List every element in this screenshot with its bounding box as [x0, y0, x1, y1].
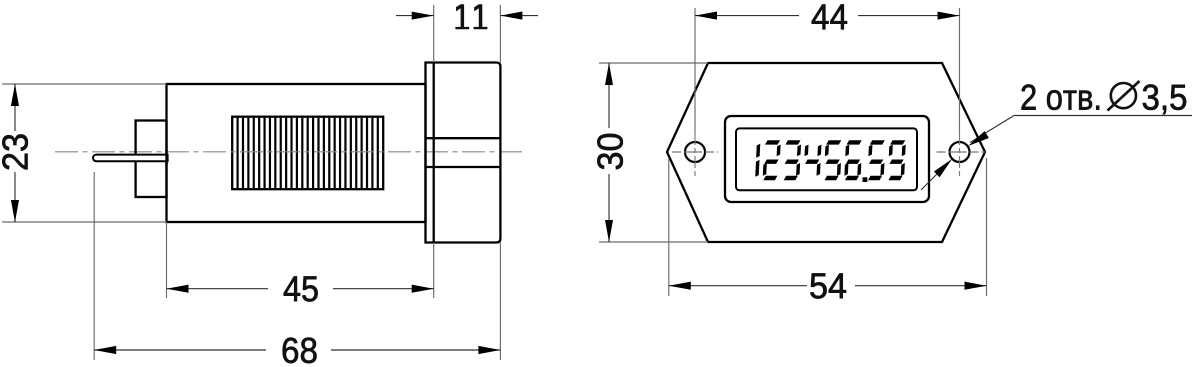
dim 11 ext right: [499, 5, 501, 63]
dim 45 line: [167, 288, 269, 290]
LCD outer frame: [725, 116, 929, 202]
dim 11 line left: [396, 15, 434, 17]
dim 11 text: [455, 4, 487, 29]
right hole crosshair horizontal: [937, 151, 986, 153]
terminal block: [136, 121, 167, 198]
dim 23 ext top: [2, 83, 167, 85]
dim 23 ext bottom: [2, 221, 167, 223]
LCD decimal point: [863, 177, 868, 182]
dim 45 arrows: [167, 285, 434, 293]
centerline axis left view: [55, 151, 524, 153]
dim 30 text: [597, 134, 622, 169]
dim 68 text: [283, 338, 317, 363]
body rectangle: [167, 84, 426, 222]
dim 44 text: [812, 5, 847, 30]
front bezel: [426, 63, 501, 243]
left hole vertical / dim44 ext: [694, 8, 696, 133]
dim 54 ext right: [986, 158, 988, 296]
dim 45 ext left: [166, 222, 168, 298]
LCD inner window: [736, 128, 917, 190]
callout arrow at hole upper-right: [968, 131, 989, 146]
dim 68 arrows: [94, 346, 500, 354]
bezel inner face line: [433, 63, 435, 243]
flange hexagon outline: [667, 63, 985, 242]
dim 30 line: [608, 63, 610, 128]
LCD digit 4: [804, 145, 822, 176]
dim 68 line: [94, 349, 266, 351]
dim 44 line: [695, 15, 799, 17]
terminal pin: [93, 155, 168, 162]
callout text "2 отв.": [1022, 84, 1100, 109]
dim 54 text: [810, 273, 846, 298]
LCD digit 2: [763, 140, 781, 180]
dim 44 arrows: [695, 12, 960, 20]
bezel groove bottom: [426, 166, 501, 168]
rib section border: [232, 117, 383, 190]
dim 30 ext bottom: [599, 241, 708, 243]
callout diameter symbol: [1108, 81, 1140, 111]
LCD digit 5: [824, 140, 842, 180]
callout leader slanted: [970, 116, 1014, 143]
dim 30 arrows: [605, 63, 613, 242]
LCD digit 6: [844, 140, 862, 180]
LCD digits 123456.59: [755, 140, 906, 182]
left hole crosshair horizontal: [672, 151, 718, 153]
callout text "3,5": [1143, 84, 1186, 114]
right mounting hole: [950, 142, 970, 162]
dim 54 ext left: [668, 158, 670, 296]
dim 45 text: [284, 276, 318, 301]
dim 11 arrows: [412, 12, 523, 20]
bezel groove top: [426, 137, 501, 139]
rib lines: [238, 118, 378, 188]
body left edge over pin: [165, 150, 167, 165]
dim 54 arrows: [669, 282, 987, 290]
dim 23 text: [2, 134, 27, 169]
right hole vertical / dim44 ext: [959, 8, 961, 133]
dim 23 arrows: [11, 84, 19, 222]
LCD digit 1: [755, 144, 760, 177]
dim 30 ext top: [599, 62, 708, 64]
LCD digit 9: [888, 140, 906, 180]
dim 68 ext left: [93, 172, 95, 360]
dim 68 ext right: [499, 243, 501, 361]
dim 54 line: [669, 285, 807, 287]
dim 11 line right: [500, 15, 538, 17]
dim 11 ext left: [433, 5, 435, 63]
dim 23 line: [14, 84, 16, 131]
dim 45 ext right: [433, 243, 435, 299]
callout second arrow shaft: [921, 166, 945, 190]
LCD digit 3: [784, 140, 802, 180]
left mounting hole: [685, 142, 705, 162]
callout second arrow: [934, 159, 952, 177]
callout leader underline: [1014, 115, 1192, 117]
LCD digit 5: [867, 140, 885, 180]
